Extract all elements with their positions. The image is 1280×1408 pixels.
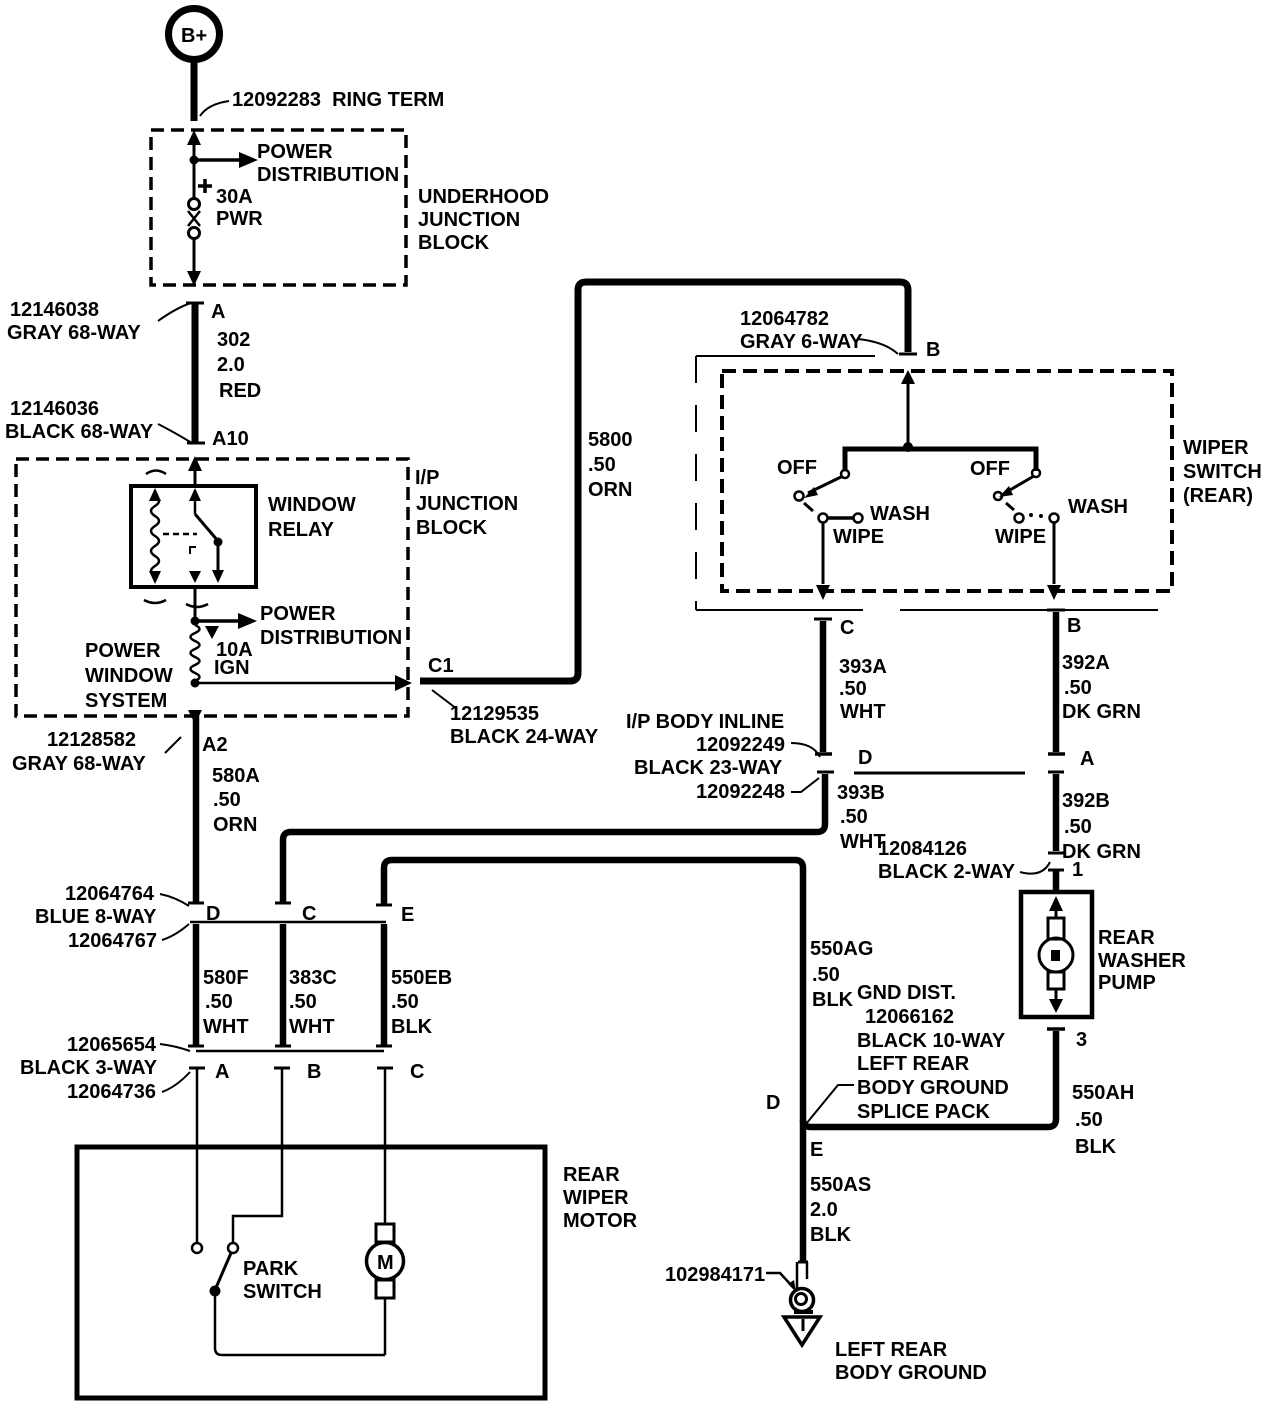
wire B+ to underhood junction block	[191, 61, 198, 121]
svg-text:2.0: 2.0	[217, 354, 245, 376]
wire 550EB .50 BLK	[376, 924, 392, 1046]
svg-text:LEFT REAR: LEFT REAR	[857, 1053, 970, 1075]
svg-text:SPLICE PACK: SPLICE PACK	[857, 1101, 991, 1123]
svg-text:SYSTEM: SYSTEM	[85, 690, 167, 712]
wire 393A .50 WHT (pin C down)	[814, 619, 832, 754]
svg-text:30A: 30A	[216, 186, 253, 208]
wire pin C to motor	[384, 1147, 387, 1224]
svg-text:WINDOW: WINDOW	[268, 494, 356, 516]
svg-text:D: D	[858, 747, 872, 769]
svg-text:.50: .50	[1064, 816, 1092, 838]
svg-text:12146038: 12146038	[10, 299, 99, 321]
svg-text:BLACK 68-WAY: BLACK 68-WAY	[5, 421, 154, 443]
svg-text:.50: .50	[1075, 1109, 1103, 1131]
label 12128582 GRAY 68-WAY with leader	[12, 729, 181, 775]
svg-text:GRAY 68-WAY: GRAY 68-WAY	[7, 322, 141, 344]
left WASH contact	[854, 514, 863, 523]
svg-text:WIPER: WIPER	[1183, 437, 1249, 459]
connector line black 3-way	[196, 1050, 384, 1053]
svg-text:POWER: POWER	[257, 141, 333, 163]
label 12146038 GRAY 68-WAY with leader	[7, 299, 191, 344]
right switch pivot	[1032, 469, 1040, 477]
svg-text:JUNCTION: JUNCTION	[416, 493, 518, 515]
label 30A PWR	[216, 186, 263, 230]
svg-text:WIPE: WIPE	[833, 526, 884, 548]
junction node at fuse bottom	[191, 679, 200, 688]
label 393A .50 WHT	[839, 656, 887, 723]
label WINDOW RELAY	[268, 494, 356, 541]
wire 550AG .50 BLK (connector E to splice pack)	[376, 860, 803, 1124]
wire 383C .50 WHT	[275, 924, 291, 1046]
label 550AS 2.0 BLK	[810, 1174, 871, 1246]
svg-text:E: E	[401, 904, 414, 926]
wire 393B .50 WHT (inline D to connector C)	[275, 772, 834, 903]
wire 580F .50 WHT	[188, 924, 204, 1046]
svg-text:5800: 5800	[588, 429, 633, 451]
svg-text:12065654: 12065654	[67, 1034, 157, 1056]
label 12064764 BLUE 8-WAY 12064767 with leaders	[35, 883, 189, 952]
svg-text:383C: 383C	[289, 967, 337, 989]
ground symbol (left rear body ground)	[784, 1317, 820, 1345]
svg-text:12064782: 12064782	[740, 308, 829, 330]
svg-text:LEFT REAR: LEFT REAR	[835, 1339, 948, 1361]
wiper switch outer thin box	[696, 356, 1158, 610]
relay socket arcs	[144, 600, 208, 607]
label 12064782 GRAY 6-WAY with leader	[740, 308, 898, 354]
fuse 10A IGN	[191, 625, 200, 681]
svg-text:PWR: PWR	[216, 208, 263, 230]
battery feed B+	[169, 9, 220, 60]
label 580F .50 WHT	[203, 967, 249, 1038]
svg-text:BLACK 10-WAY: BLACK 10-WAY	[857, 1030, 1006, 1052]
svg-text:A: A	[215, 1061, 229, 1083]
svg-text:UNDERHOOD: UNDERHOOD	[418, 186, 549, 208]
svg-text:WIPER: WIPER	[563, 1187, 629, 1209]
svg-text:12084126: 12084126	[878, 838, 967, 860]
wire entry arrow into underhood block	[187, 130, 201, 160]
svg-text:IGN: IGN	[214, 657, 250, 679]
svg-text:REAR: REAR	[1098, 927, 1155, 949]
svg-text:WASH: WASH	[870, 503, 930, 525]
wire 580A .50 ORN	[188, 716, 204, 903]
left WIPE-WASH link	[827, 516, 853, 520]
label UNDERHOOD JUNCTION BLOCK	[418, 186, 549, 254]
svg-text:PARK: PARK	[243, 1258, 299, 1280]
svg-text:12066162: 12066162	[865, 1006, 954, 1028]
svg-text:550AG: 550AG	[810, 938, 873, 960]
right contact dots	[1029, 513, 1043, 518]
junction node on switch bus	[903, 442, 913, 452]
svg-text:580F: 580F	[203, 967, 249, 989]
label 10A IGN	[214, 639, 253, 679]
label 12129535 BLACK 24-WAY with leader	[432, 690, 599, 748]
svg-text:C1: C1	[428, 655, 454, 677]
park switch pivot	[210, 1286, 221, 1297]
pin C tick (3-way)	[377, 1068, 393, 1147]
svg-text:MOTOR: MOTOR	[563, 1210, 638, 1232]
rear washer pump	[1021, 892, 1092, 1017]
svg-text:POWER: POWER	[85, 640, 161, 662]
power distribution feed arrow	[194, 141, 399, 186]
svg-text:12129535: 12129535	[450, 703, 539, 725]
left switch blade to OFF	[804, 476, 843, 498]
svg-text:BLUE 8-WAY: BLUE 8-WAY	[35, 906, 157, 928]
label 580A .50 ORN	[212, 765, 260, 836]
svg-text:12092283 RING TERM: 12092283 RING TERM	[232, 89, 444, 111]
label POWER WINDOW SYSTEM	[85, 640, 173, 712]
label REAR WIPER MOTOR	[563, 1164, 638, 1232]
label 383C .50 WHT	[289, 967, 337, 1038]
svg-text:BLK: BLK	[810, 1224, 852, 1246]
label 12092283 RING TERM with leader	[200, 89, 444, 116]
svg-text:BLK: BLK	[391, 1016, 433, 1038]
svg-text:B: B	[926, 339, 940, 361]
svg-text:JUNCTION: JUNCTION	[418, 209, 520, 231]
svg-text:.50: .50	[588, 454, 616, 476]
svg-text:WASHER: WASHER	[1098, 950, 1186, 972]
label PARK SWITCH	[243, 1258, 322, 1303]
svg-text:392B: 392B	[1062, 790, 1110, 812]
svg-text:WASH: WASH	[1068, 496, 1128, 518]
connector line blue 8-way	[190, 921, 386, 924]
wire park switch to motor	[215, 1291, 385, 1355]
wire 392A .50 DK GRN (pin B down)	[1047, 610, 1065, 754]
power distribution feed arrow (I/P)	[195, 603, 402, 649]
svg-text:550AS: 550AS	[810, 1174, 871, 1196]
label LEFT REAR BODY GROUND	[835, 1339, 987, 1384]
svg-text:OFF: OFF	[970, 458, 1010, 480]
wire right WASH to pin B	[1047, 522, 1061, 600]
left WIPE contact	[819, 514, 828, 523]
svg-text:(REAR): (REAR)	[1183, 485, 1253, 507]
junction node at fuse top	[191, 617, 200, 626]
svg-text:BLACK 3-WAY: BLACK 3-WAY	[20, 1057, 158, 1079]
pin B tick (3-way)	[274, 1068, 290, 1147]
svg-text:WHT: WHT	[840, 701, 886, 723]
label 393B .50 WHT	[837, 782, 886, 853]
svg-text:D: D	[206, 903, 220, 925]
svg-text:DISTRIBUTION: DISTRIBUTION	[260, 627, 402, 649]
left switch pivot	[841, 470, 849, 478]
wire relay to 10A fuse	[194, 587, 197, 621]
label 12065654 BLACK 3-WAY 12064736 with leaders	[20, 1034, 190, 1103]
svg-text:GRAY 68-WAY: GRAY 68-WAY	[12, 753, 146, 775]
svg-text:OFF: OFF	[777, 457, 817, 479]
wire 550AS 2.0 BLK (splice to ground)	[800, 1124, 807, 1262]
label 302 2.0 RED	[217, 329, 261, 402]
svg-text:SWITCH: SWITCH	[243, 1281, 322, 1303]
svg-text:BLK: BLK	[1075, 1136, 1117, 1158]
park switch contact A	[192, 1147, 202, 1253]
svg-text:PUMP: PUMP	[1098, 972, 1156, 994]
svg-text:580A: 580A	[212, 765, 260, 787]
svg-text:BLACK 23-WAY: BLACK 23-WAY	[634, 757, 783, 779]
wire fuse to C1 (arrow to box edge)	[195, 675, 412, 691]
right OFF contact	[994, 492, 1002, 500]
wire 5800 .50 ORN (C1 to wiper switch B)	[420, 282, 917, 681]
left motion dash	[804, 503, 813, 511]
svg-text:B+: B+	[181, 25, 207, 47]
svg-text:12092249: 12092249	[696, 734, 785, 756]
svg-text:.50: .50	[213, 789, 241, 811]
inline connector line (23-way)	[854, 772, 1025, 775]
svg-text:C: C	[302, 903, 316, 925]
right switch blade to OFF	[999, 476, 1034, 497]
svg-text:GRAY 6-WAY: GRAY 6-WAY	[740, 331, 863, 353]
svg-text:B: B	[307, 1061, 321, 1083]
label 12146036 BLACK 68-WAY with leader	[5, 398, 192, 443]
underhood junction block (dashed box)	[151, 130, 406, 285]
svg-text:392A: 392A	[1062, 652, 1110, 674]
svg-text:GND DIST.: GND DIST.	[857, 982, 956, 1004]
svg-text:WIPE: WIPE	[995, 526, 1046, 548]
svg-text:B: B	[1067, 615, 1081, 637]
svg-text:POWER: POWER	[260, 603, 336, 625]
svg-text:BLACK 24-WAY: BLACK 24-WAY	[450, 726, 599, 748]
svg-text:.50: .50	[289, 991, 317, 1013]
label 102984171 with leader	[665, 1264, 796, 1292]
svg-text:A: A	[1080, 748, 1094, 770]
svg-text:A: A	[211, 301, 225, 323]
label 550EB .50 BLK	[391, 967, 452, 1038]
svg-text:D: D	[766, 1092, 780, 1114]
svg-text:550AH: 550AH	[1072, 1082, 1134, 1104]
svg-text:ORN: ORN	[213, 814, 257, 836]
right WIPE contact	[1015, 514, 1024, 523]
wire 550AH .50 BLK (pin 3 down)	[803, 1029, 1065, 1127]
wire down from I/P block (A2 arrow)	[188, 710, 202, 724]
svg-text:REAR: REAR	[563, 1164, 620, 1186]
svg-text:.50: .50	[205, 991, 233, 1013]
right motion dash	[1006, 503, 1014, 510]
left OFF contact	[795, 492, 804, 501]
svg-text:.50: .50	[840, 806, 868, 828]
label REAR WASHER PUMP	[1098, 927, 1186, 994]
label 392B .50 DK GRN	[1062, 790, 1141, 863]
svg-text:RELAY: RELAY	[268, 519, 335, 541]
ground ring terminal 102984171	[791, 1262, 814, 1312]
right WASH contact	[1050, 514, 1059, 523]
label 550AH .50 BLK	[1072, 1082, 1134, 1158]
svg-text:102984171: 102984171	[665, 1264, 765, 1286]
svg-text:E: E	[810, 1139, 823, 1161]
label GND DIST splice pack block	[857, 982, 1009, 1123]
svg-text:393B: 393B	[837, 782, 885, 804]
svg-text:DK GRN: DK GRN	[1062, 701, 1141, 723]
fuse marker arrow	[205, 626, 219, 639]
wire 392B .50 DK GRN (inline A to pump)	[1048, 772, 1064, 892]
svg-text:I/P: I/P	[415, 467, 439, 489]
park switch contact B wire	[228, 1147, 282, 1253]
svg-text:SWITCH: SWITCH	[1183, 461, 1262, 483]
svg-text:WINDOW: WINDOW	[85, 665, 173, 687]
svg-text:RED: RED	[219, 380, 261, 402]
svg-text:A2: A2	[202, 734, 228, 756]
svg-text:A10: A10	[212, 428, 249, 450]
svg-text:12064736: 12064736	[67, 1081, 156, 1103]
svg-text:ORN: ORN	[588, 479, 632, 501]
svg-text:.50: .50	[839, 678, 867, 700]
label I/P JUNCTION BLOCK	[415, 467, 518, 539]
wire entry arrow A10 into I/P block	[146, 456, 202, 486]
svg-text:C: C	[840, 617, 854, 639]
wire 302 2.0 RED	[186, 303, 205, 443]
svg-text:I/P BODY INLINE: I/P BODY INLINE	[626, 711, 784, 733]
fuse 30A PWR	[187, 160, 212, 286]
leader to splice pack	[806, 1085, 854, 1124]
svg-text:12064764: 12064764	[65, 883, 155, 905]
svg-text:C: C	[410, 1061, 424, 1083]
wire B into switch	[901, 370, 915, 447]
park switch blade	[215, 1253, 231, 1290]
wire left WIPE to pin C	[816, 522, 830, 600]
svg-text:BLACK 2-WAY: BLACK 2-WAY	[878, 861, 1016, 883]
svg-text:BLOCK: BLOCK	[416, 517, 488, 539]
svg-text:WHT: WHT	[203, 1016, 249, 1038]
label 392A .50 DK GRN	[1062, 652, 1141, 723]
svg-text:BLOCK: BLOCK	[418, 232, 490, 254]
label 550AG .50 BLK	[810, 938, 873, 1011]
svg-text:12146036: 12146036	[10, 398, 99, 420]
motor M1 rear wiper	[367, 1224, 404, 1355]
svg-text:393A: 393A	[839, 656, 887, 678]
label 5800 .50 ORN	[588, 429, 633, 501]
svg-text:1: 1	[1072, 859, 1083, 881]
svg-text:DISTRIBUTION: DISTRIBUTION	[257, 164, 399, 186]
svg-text:3: 3	[1076, 1029, 1087, 1051]
svg-text:2.0: 2.0	[810, 1199, 838, 1221]
I/P junction block (dashed box)	[16, 459, 408, 716]
svg-text:.50: .50	[1064, 677, 1092, 699]
pin A tick (3-way)	[189, 1068, 205, 1147]
svg-text:WHT: WHT	[289, 1016, 335, 1038]
svg-text:12092248: 12092248	[696, 781, 785, 803]
svg-text:550EB: 550EB	[391, 967, 452, 989]
label 12084126 BLACK 2-WAY with leader	[878, 838, 1050, 883]
label WIPER SWITCH (REAR)	[1183, 437, 1262, 507]
svg-text:.50: .50	[391, 991, 419, 1013]
wiper switch (rear) dashed box	[722, 371, 1172, 591]
svg-text:12128582: 12128582	[47, 729, 136, 751]
svg-text:BODY GROUND: BODY GROUND	[835, 1362, 987, 1384]
svg-text:12064767: 12064767	[68, 930, 157, 952]
svg-text:BODY GROUND: BODY GROUND	[857, 1077, 1009, 1099]
svg-text:BLK: BLK	[812, 989, 854, 1011]
switch common bus	[845, 449, 1036, 471]
svg-text:M: M	[377, 1252, 394, 1274]
rear wiper motor box	[77, 1147, 545, 1398]
label I/P BODY INLINE 12092249 BLACK 23-WAY 12092248 with leaders	[626, 711, 820, 803]
window relay U1	[131, 486, 256, 587]
svg-text:.50: .50	[812, 964, 840, 986]
svg-text:302: 302	[217, 329, 250, 351]
junction node in underhood block	[190, 156, 199, 165]
